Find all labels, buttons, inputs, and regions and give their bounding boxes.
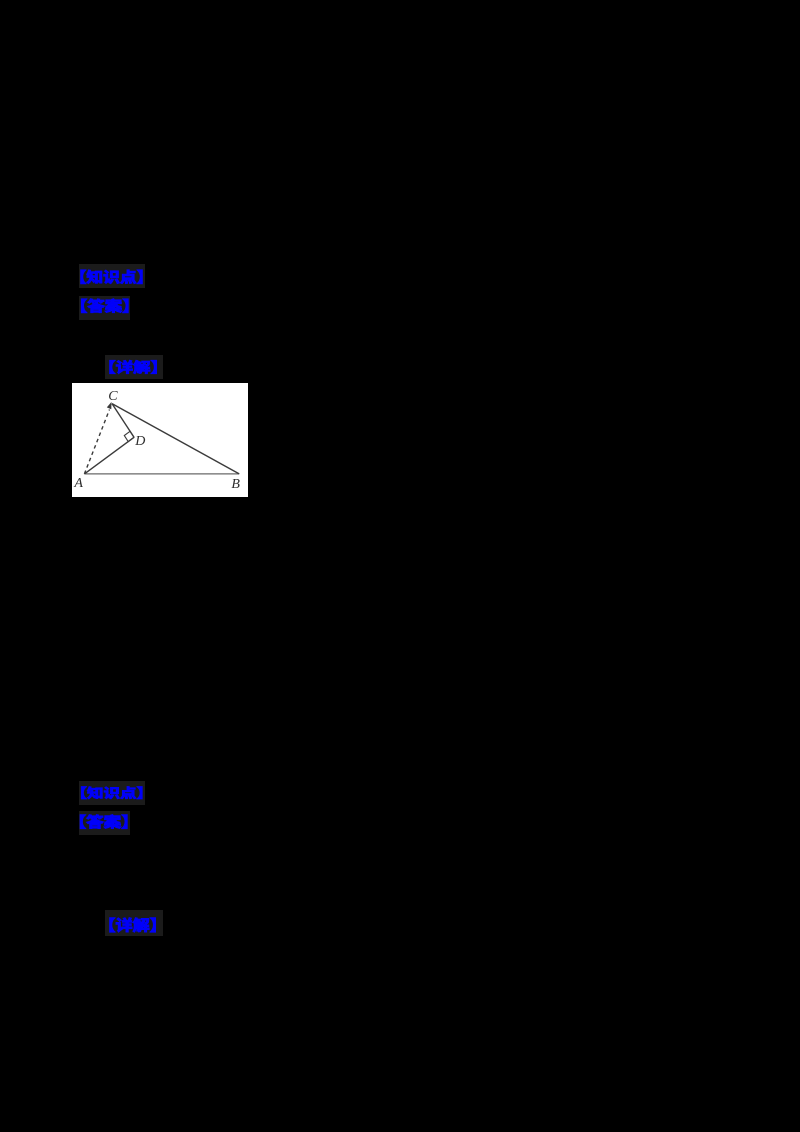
jpeg artifact box behind label 6 <box>105 910 163 936</box>
triangle side AB <box>84 473 239 475</box>
blue label 【详解】 section 1 <box>110 360 157 373</box>
svg-text:D: D <box>134 434 145 449</box>
dashed line AC <box>84 410 109 474</box>
jpeg artifact box behind label 2 <box>79 296 130 320</box>
svg-text:B: B <box>231 477 240 492</box>
svg-text:C: C <box>108 389 118 404</box>
jpeg artifact box behind label 1 <box>79 264 145 288</box>
jpeg artifact box behind label 3 <box>105 355 163 379</box>
blue label 【答案】 section 2 <box>80 815 127 829</box>
figure: white background box <box>72 383 248 497</box>
blue label 【答案】 section 1 <box>81 299 128 313</box>
jpeg artifact box behind label 4 <box>79 781 145 805</box>
blue label 【知识点】 section 1 <box>81 270 142 284</box>
arrowhead at C on dashed line <box>107 402 112 409</box>
segment AD <box>84 437 134 474</box>
blue label 【详解】 section 2 <box>110 918 156 932</box>
right angle marker at D <box>124 431 134 441</box>
triangle side CB <box>112 404 239 474</box>
jpeg artifact box behind label 5 <box>79 811 130 835</box>
svg-text:A: A <box>73 476 83 491</box>
segment CD <box>112 404 134 438</box>
blue label 【知识点】 section 2 <box>81 787 142 799</box>
